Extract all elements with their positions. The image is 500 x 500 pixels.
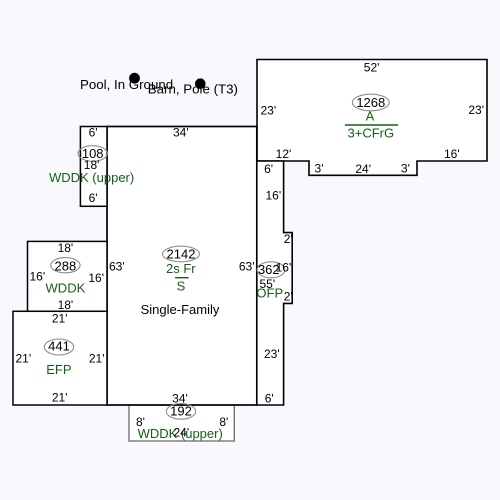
svg-text:3': 3'	[401, 162, 410, 176]
svg-text:3': 3'	[315, 162, 324, 176]
svg-text:16': 16'	[276, 261, 292, 275]
svg-text:16': 16'	[88, 271, 104, 285]
area ellipse 288	[51, 258, 80, 273]
marker dot barn	[195, 78, 206, 89]
svg-text:192: 192	[170, 404, 192, 419]
svg-text:6': 6'	[265, 391, 274, 405]
svg-text:23': 23'	[468, 103, 484, 117]
svg-text:34': 34'	[173, 126, 189, 140]
svg-text:6': 6'	[89, 126, 98, 140]
svg-text:16': 16'	[266, 188, 282, 202]
area ellipse 108	[78, 146, 107, 162]
svg-text:24': 24'	[355, 162, 371, 176]
svg-text:23': 23'	[261, 103, 277, 117]
deck WDDK288 outline	[28, 241, 108, 311]
svg-text:S: S	[177, 279, 186, 294]
svg-text:WDDK (upper): WDDK (upper)	[49, 170, 134, 185]
deck WDDK192 outline (gray)	[129, 405, 234, 441]
svg-text:63': 63'	[239, 259, 255, 273]
fraction bar main	[175, 277, 189, 279]
svg-text:6': 6'	[89, 191, 98, 205]
svg-text:24': 24'	[173, 426, 189, 440]
svg-text:2142: 2142	[167, 246, 196, 261]
svg-text:63': 63'	[109, 259, 125, 273]
building A outline	[257, 60, 487, 176]
marker dot pool	[129, 73, 140, 84]
svg-text:23': 23'	[264, 347, 280, 361]
svg-text:2': 2'	[284, 232, 293, 246]
svg-text:EFP: EFP	[46, 362, 71, 377]
svg-text:A: A	[366, 109, 375, 124]
svg-text:21': 21'	[52, 312, 68, 326]
svg-text:52': 52'	[364, 61, 380, 75]
area ellipse 441	[44, 339, 73, 355]
svg-text:18': 18'	[58, 298, 74, 312]
svg-text:18': 18'	[58, 241, 74, 255]
svg-text:2s Fr: 2s Fr	[166, 261, 196, 276]
fraction bar building A	[345, 124, 398, 126]
svg-text:21': 21'	[89, 351, 105, 365]
svg-text:OFP: OFP	[256, 286, 283, 301]
svg-text:WDDK: WDDK	[46, 281, 86, 296]
area ellipse 1268	[352, 94, 389, 111]
svg-text:3+CFrG: 3+CFrG	[348, 125, 395, 140]
svg-text:Barn, Pole (T3): Barn, Pole (T3)	[148, 82, 238, 97]
svg-text:441: 441	[48, 338, 70, 353]
svg-text:288: 288	[55, 258, 77, 273]
svg-text:6': 6'	[264, 162, 273, 176]
area ellipse 2142	[163, 246, 200, 262]
area ellipse 192	[166, 404, 195, 420]
svg-text:21': 21'	[16, 351, 32, 365]
porch OFP outline	[257, 161, 292, 405]
svg-text:2': 2'	[284, 289, 293, 303]
deck box 108 outline	[80, 127, 107, 207]
svg-text:16': 16'	[30, 270, 46, 284]
svg-text:Single-Family: Single-Family	[141, 302, 220, 317]
svg-text:1268: 1268	[356, 95, 385, 110]
porch EFP outline	[13, 311, 107, 405]
main building outline	[107, 127, 257, 406]
svg-text:21': 21'	[52, 391, 68, 405]
area ellipse 362	[257, 262, 285, 278]
svg-text:12': 12'	[276, 147, 292, 161]
svg-text:16': 16'	[444, 147, 460, 161]
